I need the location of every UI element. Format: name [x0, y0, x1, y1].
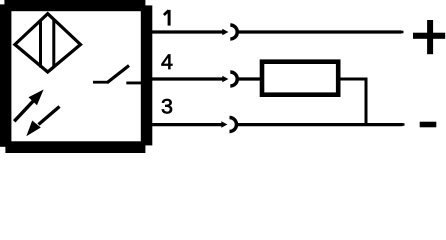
wire 1 right segment [237, 30, 402, 33]
wire 4 left segment [150, 77, 224, 80]
plus symbol horizontal bar [413, 33, 445, 39]
light beam arrow down-left [26, 107, 59, 137]
wire 1 end nub [401, 31, 404, 34]
wire 4 right segment to load [237, 77, 262, 80]
light beam arrow up-right [14, 90, 43, 122]
switch left terminal [93, 81, 108, 84]
switch right terminal [126, 81, 145, 84]
wire 3 left segment [150, 123, 223, 126]
sensor box outline [0, 0, 152, 153]
lens line left [39, 20, 42, 68]
photoelectric sensor diamond [15, 14, 81, 72]
minus symbol [420, 122, 437, 128]
svg-text:3: 3 [161, 94, 173, 118]
plus symbol vertical bar [427, 20, 433, 54]
wire 1 left segment [150, 30, 224, 33]
wire 3 right segment [236, 123, 403, 126]
svg-text:4: 4 [161, 50, 173, 74]
wire from load to corner [339, 78, 367, 81]
load resistor rectangle [262, 62, 338, 95]
connector pin tip wire 1 [222, 29, 228, 35]
connector socket arc wire 1 [230, 25, 237, 39]
connector socket arc wire 4 [230, 72, 237, 86]
wire 3 end nub [402, 123, 405, 126]
vertical wire down to wire 3 [365, 78, 368, 127]
lens line right [52, 20, 55, 68]
connector pin tip wire 4 [222, 76, 228, 82]
connector socket arc wire 3 [230, 118, 237, 132]
pin label 1 (drawn) [164, 10, 169, 26]
connector pin tip wire 3 [221, 121, 227, 127]
switch blade (NO contact) [107, 66, 129, 83]
